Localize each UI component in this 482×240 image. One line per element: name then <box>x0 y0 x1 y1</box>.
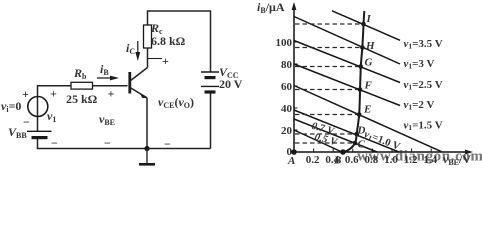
point D <box>354 132 359 137</box>
svg-text:B: B <box>333 155 341 167</box>
dashed guide to point E <box>295 114 358 116</box>
svg-text:80: 80 <box>281 59 293 71</box>
svg-text:I: I <box>366 13 372 25</box>
point E <box>357 112 362 117</box>
svg-text:v1=3 V: v1=3 V <box>404 58 435 71</box>
resistor Rb <box>71 82 93 89</box>
node B dot <box>340 149 346 155</box>
wire source to VBB battery <box>37 117 39 132</box>
x tick labels <box>306 154 438 166</box>
x-axis <box>294 151 469 153</box>
load line v1=2.5V <box>294 41 400 83</box>
svg-text:6.8 kΩ: 6.8 kΩ <box>151 34 186 48</box>
dashed guide to point D <box>295 133 355 135</box>
load line v1=1.5V <box>294 86 442 152</box>
svg-text:0.2: 0.2 <box>306 154 320 166</box>
svg-text:+: + <box>50 87 57 101</box>
svg-text:100: 100 <box>276 37 293 49</box>
y tick labels <box>276 37 293 158</box>
tilted label 0.7V <box>310 121 336 138</box>
battery VBB <box>27 131 52 137</box>
input characteristic curve <box>343 11 364 153</box>
dashed guide to point F <box>295 89 359 91</box>
ground <box>146 149 148 164</box>
wire emitter vertical <box>146 98 148 149</box>
y-axis <box>293 6 295 152</box>
resistor Rc <box>144 25 152 48</box>
junction node at emitter/ground <box>144 146 149 151</box>
dashed guide to point H <box>295 47 361 49</box>
wire collector vertical <box>147 48 149 68</box>
svg-text:25 kΩ: 25 kΩ <box>66 92 98 106</box>
wire Rb to base <box>93 85 128 87</box>
wire top from Rc to Vcc <box>148 11 211 72</box>
svg-text:−: − <box>51 136 58 150</box>
svg-text:vi=0: vi=0 <box>1 99 21 114</box>
tilted label v1=1.0V <box>362 129 402 153</box>
tilted label 0.5V <box>313 132 339 149</box>
collector plus tick <box>148 58 163 60</box>
dashed guide to point C <box>295 142 354 144</box>
point G <box>358 64 363 69</box>
point I <box>361 22 366 27</box>
load line v1=3V <box>294 17 400 65</box>
dashed guide to point G <box>295 66 359 68</box>
point F <box>358 87 363 92</box>
svg-text:20: 20 <box>281 125 293 137</box>
load line v1=1.0V <box>294 110 399 152</box>
svg-text:www.diangon.com: www.diangon.com <box>357 149 482 165</box>
load line v1=0.7V <box>294 119 377 152</box>
svg-text:H: H <box>365 40 375 52</box>
svg-text:+: + <box>162 54 169 68</box>
load line v1=0.5V <box>294 130 343 153</box>
transistor Q base bar <box>128 72 131 94</box>
point C <box>353 141 358 146</box>
arrow iB <box>97 77 115 79</box>
wire VBB to bottom rail <box>38 138 211 149</box>
svg-text:−: − <box>104 136 111 150</box>
svg-text:A: A <box>287 155 295 167</box>
battery VCC <box>201 72 219 92</box>
svg-text:G: G <box>365 57 373 69</box>
svg-text:E: E <box>363 104 371 116</box>
transistor collector diagonal <box>130 68 148 82</box>
node A dot at origin <box>291 149 297 155</box>
svg-text:−: − <box>23 115 30 129</box>
transistor emitter diagonal with arrow <box>130 88 147 98</box>
y ticks <box>294 42 298 130</box>
svg-text:+: + <box>108 87 115 101</box>
svg-text:F: F <box>364 80 373 92</box>
svg-text:−: − <box>164 137 171 151</box>
load line v1=2V <box>294 64 400 106</box>
point H <box>360 45 365 50</box>
load line v1=3.5V <box>332 11 400 41</box>
svg-text:20 V: 20 V <box>219 77 243 91</box>
x ticks <box>314 149 432 153</box>
wire left rail top <box>38 86 72 117</box>
source v_i circle <box>28 97 48 117</box>
svg-text:v1=2 V: v1=2 V <box>404 99 435 112</box>
svg-text:+: + <box>22 87 29 101</box>
svg-text:40: 40 <box>281 103 293 115</box>
svg-text:60: 60 <box>281 81 293 93</box>
wire Vcc bottom to bottom rail <box>210 92 212 149</box>
arrow iC <box>137 41 139 56</box>
dashed guide to point I <box>295 23 362 25</box>
